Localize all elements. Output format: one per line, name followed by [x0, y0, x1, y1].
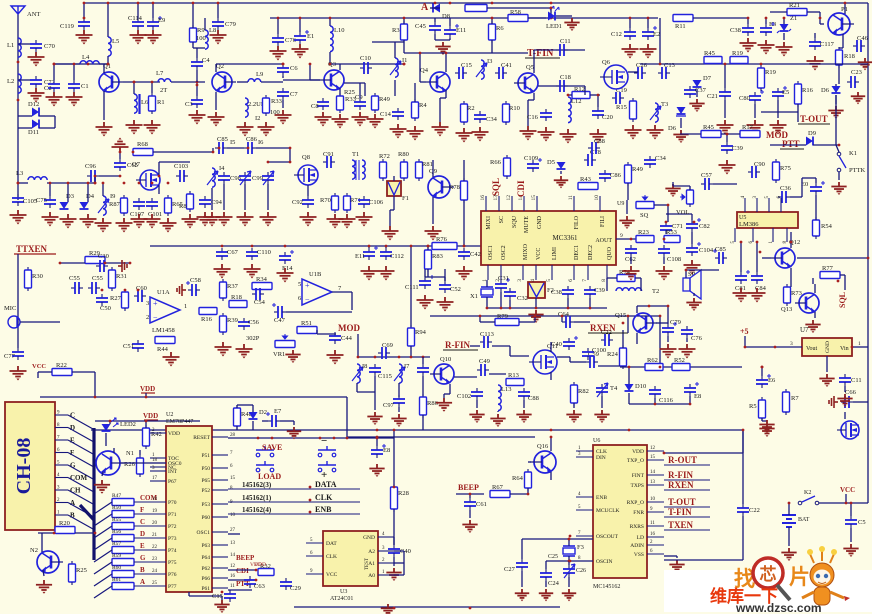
resistor R7 — [785, 389, 787, 392]
wire R-FIN — [664, 479, 710, 481]
ground L12 — [560, 129, 577, 144]
IC U2 microcontroller EM78P447 — [166, 426, 212, 592]
wire c76 up — [277, 18, 279, 34]
pin 10 FILI of U4 — [599, 196, 601, 211]
svg-text:T-FIN: T-FIN — [668, 507, 692, 517]
wire d11 l — [18, 127, 32, 129]
svg-text:+5: +5 — [740, 327, 749, 336]
inductor I2 — [245, 98, 248, 117]
capacitor C77 — [17, 348, 19, 352]
resistor R16b — [797, 81, 799, 84]
svg-text:R37: R37 — [227, 283, 239, 290]
inductor L10 — [330, 26, 333, 52]
wire audio rail y397 — [40, 396, 347, 398]
svg-text:R64: R64 — [512, 475, 524, 482]
svg-text:6: 6 — [568, 279, 574, 282]
pin ADIN of U6 — [647, 544, 664, 546]
svg-text:芯: 芯 — [760, 564, 777, 584]
svg-text:X1: X1 — [470, 293, 478, 300]
svg-text:R58: R58 — [510, 9, 521, 16]
wire d9 r — [813, 144, 839, 146]
IC F1 ceramic filter — [387, 181, 401, 196]
wire d12 l — [18, 115, 32, 117]
svg-text:U9: U9 — [617, 201, 624, 207]
ground Q13 — [805, 320, 820, 333]
pin MCUCLK of U6 — [576, 509, 593, 511]
svg-text:ADIN: ADIN — [630, 543, 644, 549]
wire u3 r4 — [394, 574, 404, 576]
svg-text:E8: E8 — [383, 447, 390, 454]
junction jr3 — [403, 63, 406, 66]
capacitor E8b — [376, 446, 378, 450]
gnd right C30 — [118, 260, 127, 272]
wire f3 dn — [568, 556, 570, 561]
svg-text:R50: R50 — [112, 505, 121, 511]
capacitor C104 — [691, 244, 693, 248]
svg-text:VDD: VDD — [143, 412, 158, 420]
wire q15 bv — [622, 330, 624, 348]
inductor L4 — [80, 61, 99, 64]
svg-text:R8: R8 — [179, 203, 187, 210]
capacitor C6 — [282, 64, 284, 68]
svg-text:N2: N2 — [30, 547, 38, 554]
pin P60 of U2 — [212, 516, 228, 518]
ground E7h — [287, 427, 301, 439]
wire c27 dn — [521, 571, 523, 587]
svg-text:R24: R24 — [607, 351, 619, 358]
ground C27 — [515, 589, 529, 601]
svg-text:R72: R72 — [379, 153, 390, 160]
wire quo dn — [606, 278, 608, 291]
svg-text:R33: R33 — [271, 98, 282, 105]
capacitor E0 — [815, 183, 817, 187]
pin 12 SQU of U4 — [511, 196, 513, 211]
svg-text:OSC1: OSC1 — [488, 245, 494, 260]
svg-text:R20: R20 — [59, 520, 70, 527]
pin TXPS of U6 — [647, 484, 664, 486]
ground C112 — [378, 266, 395, 281]
svg-text:R2: R2 — [467, 105, 475, 112]
diode D6r — [832, 86, 841, 93]
capacitor C64 — [562, 321, 566, 323]
svg-text:C7: C7 — [290, 91, 298, 98]
capacitor C113 — [480, 341, 484, 343]
wire c102 dn — [476, 400, 478, 408]
svg-text:R1: R1 — [157, 99, 165, 106]
wire oscout wire — [522, 538, 593, 540]
capacitor C106 — [363, 196, 365, 200]
svg-text:RXEN: RXEN — [668, 480, 694, 490]
pin A of CH-08 connector — [55, 502, 68, 504]
wire c40c dn — [393, 557, 395, 566]
svg-text:MUTE: MUTE — [524, 216, 530, 233]
wire vss v — [676, 556, 678, 558]
wire i9 up — [102, 183, 104, 196]
svg-text:+: + — [305, 281, 310, 290]
resistor R33b — [339, 93, 341, 96]
junctions tank junctions — [357, 356, 360, 359]
wire e7 up — [667, 306, 669, 324]
wire e5 dn — [777, 100, 779, 118]
svg-text:C39: C39 — [732, 145, 743, 152]
resistor R34 — [252, 283, 272, 290]
resistor R47 — [112, 499, 134, 506]
svg-text:QUO: QUO — [607, 246, 613, 260]
wire r51 r — [316, 329, 318, 331]
wire led2 dn — [105, 433, 107, 446]
wire r78 dn — [463, 200, 465, 246]
wire R-OUT — [664, 464, 710, 466]
watermark white box — [664, 570, 872, 612]
svg-text:R39: R39 — [227, 317, 238, 324]
wire tout wire — [761, 111, 798, 113]
svg-text:R30: R30 — [32, 273, 43, 280]
wire u1b out — [332, 291, 352, 293]
capacitor C109 — [532, 160, 534, 164]
svg-text:C24: C24 — [548, 580, 560, 587]
wire ladder R55 — [134, 525, 166, 527]
svg-text:LD: LD — [637, 535, 644, 541]
ground C99 — [237, 212, 254, 227]
capacitor C22b — [601, 339, 605, 341]
svg-text:C111: C111 — [405, 284, 419, 291]
wire e8b up — [376, 438, 378, 446]
svg-text:R19: R19 — [732, 50, 743, 57]
capacitor C37 — [689, 86, 691, 90]
pin A0 of U3 — [378, 574, 394, 576]
svg-text:R25: R25 — [76, 567, 87, 574]
junction r78j — [463, 245, 466, 248]
wire c6 dn — [282, 76, 284, 78]
wire TXEN — [664, 529, 710, 531]
ground I4 — [204, 212, 221, 227]
ground N1 — [94, 480, 110, 494]
wire r22 wire — [37, 372, 39, 378]
pin 5 LIMI of U4 — [551, 265, 553, 280]
wire r6 up — [491, 18, 493, 24]
svg-text:DEC2: DEC2 — [588, 245, 594, 260]
svg-text:C30: C30 — [98, 253, 109, 260]
wire r9 to c4 — [192, 42, 194, 48]
ground VOL top — [665, 184, 680, 197]
resistor R23 — [636, 236, 654, 243]
svg-text:GND: GND — [825, 341, 831, 353]
wire e7h l — [262, 420, 268, 422]
svg-text:D7: D7 — [703, 75, 712, 82]
pin GND of U3 — [378, 536, 394, 538]
svg-text:VCC: VCC — [32, 363, 46, 370]
svg-text:R94: R94 — [415, 329, 427, 336]
capacitor C32 — [509, 288, 511, 292]
ground varD6 — [673, 130, 688, 143]
wire r78 up — [463, 160, 465, 181]
svg-text:OSC2: OSC2 — [501, 245, 507, 260]
capacitor C103b — [422, 364, 424, 368]
resistor R54 — [815, 217, 817, 220]
ground U7 — [819, 374, 834, 387]
wire vdd u6 wire — [664, 452, 743, 454]
bus to U2 — [92, 428, 95, 560]
wire r82 dn — [573, 403, 575, 408]
ground R82 — [566, 410, 581, 423]
svg-text:VCC: VCC — [840, 486, 855, 494]
trimmer I4 — [212, 168, 215, 187]
wire q5 coll — [533, 50, 535, 73]
svg-text:C56: C56 — [248, 319, 260, 326]
svg-text:12: 12 — [650, 446, 656, 451]
junction f3 bot — [568, 560, 571, 563]
wire r67 to q16 — [510, 493, 528, 495]
wire d3 up — [67, 183, 69, 202]
IC U4 MC3361 IF demodulator — [481, 211, 616, 265]
wire c111 c52 h — [425, 276, 445, 278]
capacitor C14 — [397, 108, 399, 112]
svg-text:L1: L1 — [7, 42, 14, 49]
svg-text:28: 28 — [230, 433, 236, 438]
wire c116 dn — [654, 398, 656, 404]
capacitor E11b — [368, 248, 370, 252]
wire r79 l — [480, 321, 495, 323]
resistor R75 — [775, 159, 777, 162]
resistor R8 — [189, 191, 191, 194]
svg-text:C5: C5 — [858, 519, 866, 526]
resistor R1 — [151, 93, 153, 96]
capacitor C67 — [221, 248, 223, 252]
resistor R4 — [414, 99, 416, 102]
diode D10 — [625, 384, 634, 391]
ground C16 — [538, 127, 555, 142]
svg-text:TTXEN: TTXEN — [16, 244, 48, 254]
pin LD of U6 — [647, 536, 664, 538]
svg-text:R59: R59 — [112, 553, 121, 559]
capacitor C50 — [101, 294, 103, 298]
pin 15 GND of U4 — [536, 196, 538, 211]
capacitor E5 — [777, 88, 779, 92]
capacitor C38 — [747, 24, 749, 28]
wire ladder R59 — [134, 561, 166, 563]
wire q4 e3 — [439, 98, 441, 122]
pin OSC1 of U2 — [212, 531, 228, 533]
svg-text:12: 12 — [230, 564, 236, 569]
junction j q1c — [107, 63, 110, 66]
svg-text:23: 23 — [152, 557, 158, 562]
wire q4 e2 — [440, 97, 446, 99]
svg-text:C9: C9 — [355, 94, 363, 101]
resistor R3 — [403, 21, 405, 24]
crystal F3 — [563, 545, 575, 547]
resistor R18b — [838, 47, 840, 50]
svg-text:P75: P75 — [168, 560, 177, 566]
capacitor C114 — [137, 18, 139, 22]
svg-text:CH-08: CH-08 — [13, 438, 35, 495]
trimmer inductor I7 — [399, 364, 402, 383]
svg-text:C36: C36 — [780, 185, 792, 192]
resistor R80 — [403, 159, 405, 162]
wire c39c dn — [589, 298, 591, 308]
svg-text:C99: C99 — [252, 175, 263, 182]
resistor R25b — [71, 561, 73, 564]
wire c2 up — [53, 64, 55, 80]
svg-text:R4: R4 — [419, 102, 427, 109]
wire z1 up — [783, 18, 785, 24]
wire d11 r — [39, 127, 55, 129]
svg-text:D10: D10 — [635, 383, 646, 390]
wire d12 r — [39, 115, 55, 117]
wire c22 dn — [742, 516, 744, 560]
potentiometer VOL — [689, 187, 691, 190]
svg-text:R16: R16 — [201, 316, 213, 323]
ground VSS — [669, 560, 684, 573]
ground I9 — [95, 218, 112, 233]
ground C62 — [623, 266, 640, 281]
wire CLK underline — [310, 501, 360, 503]
svg-text:CLK: CLK — [315, 493, 333, 502]
trimmer T3 — [655, 103, 658, 122]
svg-text:C16: C16 — [527, 114, 539, 121]
svg-text:VDD: VDD — [632, 449, 644, 455]
ground N2 — [36, 580, 52, 594]
resistor R16 — [199, 308, 217, 315]
wire c98 dn — [223, 184, 225, 210]
capacitor C69 — [378, 352, 382, 354]
pin P52 of U2 — [212, 489, 228, 491]
wire l7 r — [171, 81, 205, 83]
wire c52 up — [444, 269, 446, 281]
wire k1 from d6 — [835, 95, 837, 145]
wire l6 up — [133, 82, 135, 94]
svg-text:I8: I8 — [362, 363, 367, 370]
ground C70 — [28, 52, 45, 67]
wire c75 up — [49, 183, 51, 196]
capacitor E8 — [689, 384, 691, 388]
wire led1 r — [556, 15, 572, 17]
junction btn j — [346, 437, 349, 440]
capacitor C55b — [88, 287, 92, 289]
ground E9 — [145, 30, 162, 45]
wire p1 d2 — [838, 65, 840, 84]
wire u7 gnd — [826, 356, 828, 372]
ground C8 — [315, 112, 332, 127]
ground C88b — [516, 410, 531, 423]
svg-text:A0: A0 — [368, 573, 375, 579]
ground C42 — [456, 266, 473, 281]
ground C98 — [216, 212, 233, 227]
ground C44 — [327, 350, 344, 365]
capacitor C15 — [229, 590, 231, 594]
ground E1 — [292, 44, 309, 59]
wire c45 j — [434, 34, 436, 40]
wire r49b dn2 — [626, 200, 628, 214]
capacitor C10 — [360, 67, 364, 69]
wire spk h — [686, 269, 719, 271]
svg-text:P52: P52 — [201, 488, 210, 494]
wire c66 r — [853, 401, 868, 403]
resistor R78 — [463, 178, 465, 181]
wire l8 up — [204, 18, 206, 30]
wire d4 up — [87, 183, 89, 202]
wire r58 l — [528, 17, 546, 19]
wire e7h r — [280, 420, 294, 422]
wire q3 b h — [283, 79, 320, 81]
svg-text:VSS: VSS — [634, 552, 644, 558]
wire e6 up — [761, 367, 763, 376]
transistor Q9 — [428, 176, 450, 198]
bus diag — [80, 505, 94, 520]
wire t1 to f1 — [393, 176, 395, 181]
capacitor C59 — [586, 361, 590, 363]
svg-text:L13: L13 — [501, 386, 511, 393]
wire c22 h — [664, 559, 743, 561]
ground C101 — [144, 214, 161, 229]
wire d10 up — [628, 367, 630, 384]
op-amp U1A — [150, 297, 180, 323]
svg-text:C114: C114 — [128, 15, 143, 22]
ground C7 — [275, 110, 292, 125]
ground C1 — [66, 92, 83, 107]
svg-text:T4: T4 — [610, 385, 618, 392]
op-amp U1B — [302, 279, 332, 305]
wire d6r dn — [835, 95, 837, 104]
inductor L3 — [28, 177, 47, 180]
wire top a1 — [430, 7, 440, 9]
wire spk dn — [693, 293, 695, 296]
wire c72 lead — [18, 79, 30, 81]
svg-text:LM1458: LM1458 — [152, 327, 175, 334]
wire c76b dn — [686, 338, 688, 342]
svg-text:C57: C57 — [701, 172, 713, 179]
ground R87 — [116, 218, 133, 233]
capacitor C7 — [282, 88, 284, 92]
svg-text:C4: C4 — [202, 57, 210, 64]
IC U6 MC145162 PLL — [593, 445, 647, 578]
capacitor C55a — [71, 287, 75, 289]
ground SPK — [686, 298, 701, 311]
wire pin D diagonal — [68, 428, 93, 442]
svg-text:RXRS: RXRS — [630, 524, 644, 530]
svg-text:Vout: Vout — [806, 346, 818, 352]
capacitor C12 — [629, 28, 631, 32]
wire rf row bus y64 — [54, 63, 108, 65]
switch K1 — [837, 152, 841, 156]
svg-text:MIXI: MIXI — [486, 216, 492, 230]
resistor R94 — [410, 325, 412, 328]
svg-text:L7: L7 — [156, 70, 164, 77]
capacitor C40b — [568, 338, 570, 342]
svg-text:L5: L5 — [112, 38, 119, 45]
svg-text:16: 16 — [230, 574, 236, 579]
wire e0 dn — [815, 195, 817, 220]
svg-text:R51: R51 — [301, 320, 312, 327]
capacitor C36 — [778, 196, 782, 198]
inductor L12 — [568, 97, 571, 123]
wire r5 g — [762, 420, 767, 422]
svg-text:C54: C54 — [254, 299, 266, 306]
wire q7 s — [158, 185, 160, 194]
svg-text:DATA: DATA — [315, 480, 337, 489]
resistor R67 — [490, 491, 510, 498]
wire q2 coll h — [216, 63, 283, 65]
svg-text:K1: K1 — [849, 150, 857, 157]
capacitor C107 — [138, 198, 140, 202]
wire d7 dn — [696, 89, 698, 97]
svg-text:P76: P76 — [168, 572, 177, 578]
wire e0 h2 — [802, 177, 816, 179]
ground C12 — [622, 44, 639, 59]
wire p1 b2 — [820, 23, 824, 25]
wire T-OUT — [664, 506, 710, 508]
wire r83 up — [427, 246, 429, 250]
svg-text:P73: P73 — [168, 536, 177, 542]
